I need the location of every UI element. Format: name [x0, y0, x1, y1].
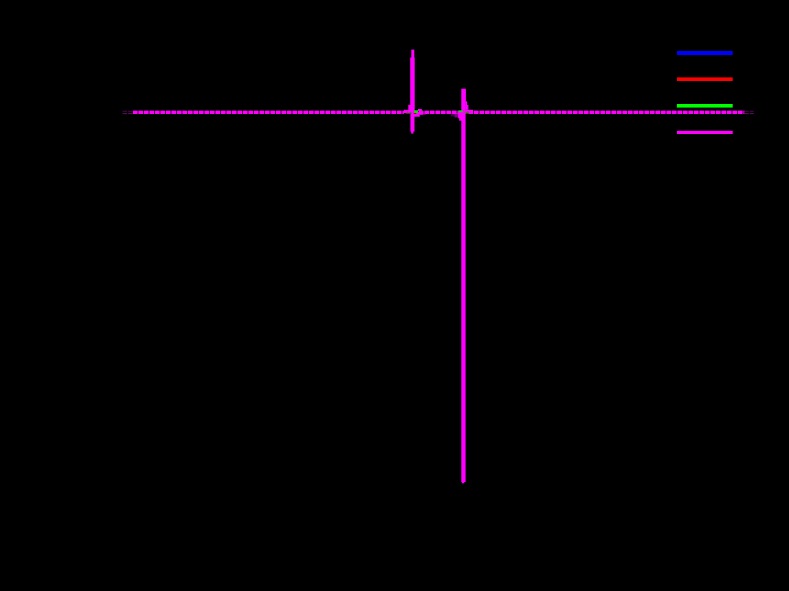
faint dashed edge lines, left end	[123, 111, 134, 113]
magenta dashed threshold line	[133, 111, 744, 114]
faint dashed edge lines, right end	[744, 111, 754, 113]
magenta spike 2 (x~463, long downward)	[451, 89, 473, 484]
red speck at spike 1 crossing	[414, 112, 416, 115]
green specks at spike 2 crossing	[459, 110, 469, 114]
legend: green line	[677, 104, 733, 108]
legend: magenta line	[677, 131, 733, 134]
legend: red line	[677, 77, 733, 81]
legend: blue line	[677, 51, 733, 55]
green specks at spike 1 crossing	[406, 110, 423, 114]
magenta spike 1 (x~412)	[404, 50, 426, 134]
magenta dashed threshold line (dim underlay for AA-filled gaps)	[133, 111, 744, 114]
